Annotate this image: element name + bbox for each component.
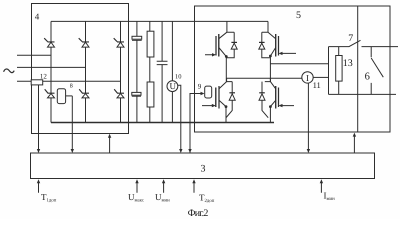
svg-text:4: 4 [35,12,40,22]
svg-text:Фиг.2: Фиг.2 [188,208,209,219]
svg-text:12: 12 [40,72,48,80]
svg-text:10: 10 [175,74,182,81]
svg-text:8: 8 [70,84,73,90]
svg-text:Uмакс: Uмакс [128,192,144,204]
svg-text:I: I [306,73,309,83]
svg-text:T2доп: T2доп [199,193,215,205]
svg-text:T1доп: T1доп [41,192,57,204]
svg-text:9: 9 [198,82,202,90]
svg-text:13: 13 [343,58,353,69]
svg-text:5: 5 [296,10,301,21]
svg-text:Uмин: Uмин [155,192,170,204]
svg-text:U: U [169,81,176,91]
svg-text:6: 6 [365,72,370,83]
svg-text:3: 3 [201,163,206,174]
svg-text:11: 11 [313,80,321,90]
svg-text:Iмин: Iмин [324,191,336,203]
svg-text:7: 7 [348,33,353,44]
